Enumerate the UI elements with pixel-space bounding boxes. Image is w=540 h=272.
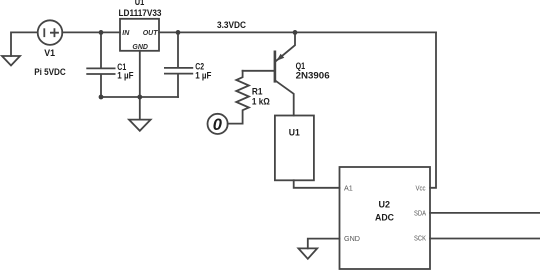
wire regulator GND xyxy=(139,51,141,120)
emitter arrow Q1 xyxy=(276,54,284,61)
svg-text:1 kΩ: 1 kΩ xyxy=(252,97,270,107)
junction node xyxy=(176,30,181,35)
junction node xyxy=(99,30,104,35)
ground xyxy=(129,120,151,131)
transistor Q1 xyxy=(276,32,295,60)
junction node xyxy=(137,95,142,100)
voltage source V1 xyxy=(38,20,63,45)
wire base to R1 xyxy=(243,70,275,72)
svg-text:OUT: OUT xyxy=(143,30,159,37)
resistor R1 xyxy=(228,71,249,124)
junction node xyxy=(99,95,104,100)
svg-text:V1: V1 xyxy=(44,48,55,58)
wire U1 to A1 xyxy=(294,180,340,188)
IC U2 ADC xyxy=(340,167,431,269)
wire SDA xyxy=(430,212,540,214)
wire SCK xyxy=(430,238,540,240)
svg-text:U1: U1 xyxy=(289,128,300,138)
svg-text:SCK: SCK xyxy=(414,233,426,242)
regulator U1 xyxy=(120,19,159,51)
node 0 connector xyxy=(208,114,228,134)
svg-text:R1: R1 xyxy=(252,87,263,97)
svg-text:Q1: Q1 xyxy=(296,61,306,71)
svg-text:0: 0 xyxy=(213,116,223,134)
wire V1 to regulator IN xyxy=(62,31,120,33)
svg-text:Vcc: Vcc xyxy=(416,183,426,192)
svg-text:Pi 5VDC: Pi 5VDC xyxy=(34,67,66,77)
svg-text:IN: IN xyxy=(122,30,130,37)
svg-text:SDA: SDA xyxy=(414,208,426,217)
svg-text:ADC: ADC xyxy=(375,213,394,223)
svg-text:3.3VDC: 3.3VDC xyxy=(217,20,246,30)
capacitor C2 xyxy=(165,32,192,97)
svg-text:GND: GND xyxy=(132,44,148,51)
wire V1 left to ground xyxy=(11,32,38,56)
svg-text:A1: A1 xyxy=(344,183,353,192)
svg-text:1 µF: 1 µF xyxy=(195,70,212,80)
wire OUT 3.3VDC rail xyxy=(159,31,436,33)
capacitor C1 xyxy=(87,32,114,97)
svg-text:U2: U2 xyxy=(379,199,391,209)
ground xyxy=(298,248,317,258)
svg-text:2N3906: 2N3906 xyxy=(296,70,330,80)
svg-text:1 µF: 1 µF xyxy=(117,71,134,81)
junction node xyxy=(293,30,298,35)
wire Vcc xyxy=(430,32,436,187)
box U1 xyxy=(275,116,314,181)
svg-text:U1: U1 xyxy=(135,0,145,7)
wire U2 GND xyxy=(308,239,340,249)
svg-text:GND: GND xyxy=(344,234,360,243)
ground xyxy=(2,56,20,66)
wire ground rail xyxy=(101,96,178,98)
svg-text:LD1117V33: LD1117V33 xyxy=(119,8,162,18)
